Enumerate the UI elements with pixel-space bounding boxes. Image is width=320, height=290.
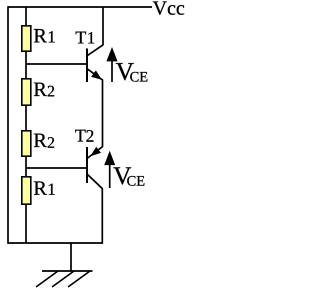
wire left rail (7, 6, 9, 243)
transistor T2 emitter lead (87, 146, 103, 158)
wire emitter T1 to emitter T2 (102, 80, 104, 147)
resistor R1 label (bottom) (34, 181, 55, 194)
wire ground stub (70, 243, 72, 271)
arrow VCE1 (106, 47, 117, 61)
resistor R1 label (34, 29, 55, 42)
wire R2 to R2 (25, 106, 27, 130)
resistor R2 label (third) (34, 134, 54, 148)
wire R1 to bottom rail (25, 205, 27, 243)
resistor R1 (bottom) (22, 177, 31, 204)
transistor T1 emitter lead (87, 69, 103, 81)
label VCE2 (113, 167, 144, 185)
wire R2 to R1 (25, 157, 27, 176)
wire T1 collector vertical (102, 7, 104, 45)
resistor R2 (third) (22, 131, 31, 156)
wire Vcc top rail (8, 6, 152, 8)
transistor T2 base bar (86, 147, 88, 183)
wire R1 to R2 (25, 52, 27, 78)
transistor T1 base bar (86, 49, 88, 83)
resistor R2 label (34, 83, 54, 97)
wire bottom rail (8, 242, 103, 244)
transistor T2 emitter arrow (90, 147, 101, 157)
transistor T1 emitter arrow (91, 70, 102, 80)
transistor T2 collector lead (87, 174, 103, 189)
transistor T1 label (76, 32, 95, 44)
arrow VCE2 (104, 151, 115, 165)
wire top stub to R1 (25, 7, 27, 25)
wire T2 base (26, 167, 87, 169)
ground (36, 271, 93, 287)
node Vcc label (153, 2, 184, 15)
wire T1 base (26, 63, 87, 65)
label VCE1 (116, 63, 148, 82)
wire T2 collector to bottom rail (101, 189, 103, 244)
transistor T2 label (75, 130, 93, 142)
resistor R1 (top) (22, 26, 31, 51)
transistor T1 collector lead (87, 45, 103, 56)
resistor R2 (second) (22, 79, 31, 105)
